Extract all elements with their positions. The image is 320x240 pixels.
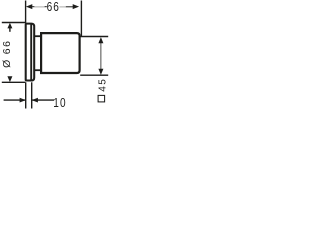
svg-text:66: 66 — [47, 1, 60, 14]
dim 10 bottom: dimension line left part — [4, 99, 26, 101]
dim 10 bottom: left extension line — [25, 82, 27, 108]
dim Ø66 left: bottom extension line — [2, 81, 26, 83]
dim 10 bottom: right extension line — [31, 82, 33, 108]
arrowhead dim 10 pointing right — [20, 98, 26, 103]
arrowhead dim 10 pointing left — [32, 98, 38, 103]
arrowhead dim Ø66 down — [7, 76, 12, 82]
dim Ø66 left: dimension line — [9, 28, 11, 32]
collar bottom edge — [34, 69, 41, 71]
dim Ø66 left: top extension line — [2, 22, 26, 24]
arrowhead dim 66 left — [26, 4, 32, 9]
arrowhead dim square45 down — [98, 69, 103, 75]
arrowhead dim 66 right — [73, 4, 79, 9]
arrowhead dim square45 up — [98, 37, 103, 43]
arrowhead dim Ø66 up — [7, 23, 12, 29]
collar top edge — [34, 35, 41, 37]
svg-text:10: 10 — [53, 97, 66, 110]
dim 66 top: dimension line — [32, 6, 35, 8]
label square symbol right — [98, 95, 105, 102]
dim 66 top: left extension line — [25, 1, 27, 24]
dim 66 top: right extension line — [80, 1, 82, 37]
svg-text:Ø 66: Ø 66 — [2, 39, 13, 68]
dim 10 bottom: dimension line right part — [32, 99, 54, 101]
svg-text:45: 45 — [97, 78, 108, 92]
dim square45 right: top extension line — [80, 36, 108, 38]
escutcheon plate (side view) — [26, 24, 35, 81]
handle knob (side view) — [41, 33, 80, 73]
plate seam line — [30, 24, 32, 80]
dim square45 right: dimension line — [100, 43, 102, 69]
dim square45 right: bottom extension line — [80, 74, 108, 76]
